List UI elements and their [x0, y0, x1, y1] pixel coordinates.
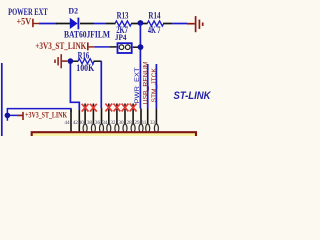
svg-text:R14: R14	[148, 11, 160, 21]
svg-text:100K: 100K	[76, 63, 94, 73]
svg-text:+3V3_ST_LINK: +3V3_ST_LINK	[35, 41, 86, 51]
svg-text:34: 34	[102, 120, 108, 126]
svg-text:31: 31	[141, 120, 147, 126]
svg-text:D2: D2	[68, 7, 78, 16]
svg-text:42: 42	[73, 120, 79, 126]
svg-text:R16: R16	[78, 50, 90, 60]
svg-text:33: 33	[150, 120, 156, 126]
svg-text:+5V: +5V	[17, 17, 32, 27]
svg-text:28: 28	[127, 120, 133, 126]
svg-text:PWR_EXT: PWR_EXT	[134, 67, 141, 103]
svg-text:R13: R13	[117, 11, 129, 21]
svg-text:BAT60JFILM: BAT60JFILM	[64, 30, 110, 40]
svg-text:ST-LINK: ST-LINK	[174, 90, 212, 102]
svg-text:29: 29	[134, 120, 140, 126]
svg-text:36: 36	[95, 120, 101, 126]
svg-text:32: 32	[110, 120, 116, 126]
svg-text:44: 44	[64, 120, 70, 126]
svg-text:JP4: JP4	[115, 32, 127, 42]
svg-text:40: 40	[79, 120, 85, 126]
svg-text:38: 38	[87, 120, 93, 126]
svg-text:+3V3_ST_LINK: +3V3_ST_LINK	[25, 109, 67, 119]
svg-text:STM_JTCK: STM_JTCK	[151, 67, 158, 102]
svg-text:4K 7: 4K 7	[148, 25, 161, 35]
svg-text:POWER EXT: POWER EXT	[8, 7, 48, 17]
svg-text:30: 30	[118, 120, 124, 126]
svg-text:USB_RENUM: USB_RENUM	[142, 62, 149, 105]
